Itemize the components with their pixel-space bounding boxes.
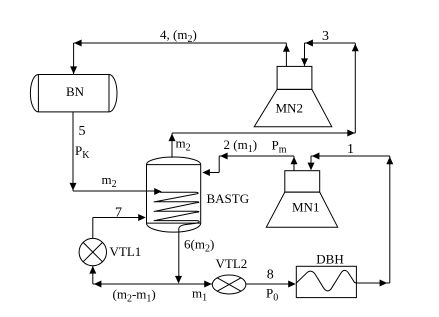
- valve VTL2: [212, 275, 246, 294]
- arrow up, MN1 outlet: [291, 157, 298, 165]
- wire MN2 outlet riser: [285, 43, 287, 66]
- wire VTL1 bottom riser: [92, 266, 94, 284]
- svg-text:Pm: Pm: [272, 138, 287, 156]
- arrow up, right riser top: [386, 157, 393, 165]
- arrow right, y133 corner: [347, 130, 355, 137]
- svg-text:P0: P0: [266, 286, 278, 304]
- svg-text:PK: PK: [75, 143, 90, 161]
- wire line 4 horizontal: [74, 42, 287, 44]
- wire line 2 jog vertical: [218, 156, 220, 173]
- wire right riser: [389, 156, 391, 283]
- wire BASTG m2 riser: [171, 133, 173, 158]
- wire DBH output: [356, 282, 389, 284]
- svg-text:BN: BN: [66, 84, 85, 99]
- wire MN1 outlet riser: [293, 156, 295, 171]
- coil inside BASTG: [154, 192, 199, 228]
- arrow right, line 7 at wall: [138, 214, 146, 221]
- arrow left, bottom line end: [94, 281, 102, 288]
- compressor MN2: [254, 66, 332, 126]
- arrow left, line 3 end: [305, 40, 313, 47]
- arrowheads: [70, 40, 394, 288]
- svg-text:VTL2: VTL2: [216, 256, 248, 271]
- wire line 3 horizontal: [305, 42, 356, 44]
- arrow up, m2 riser top: [169, 134, 176, 142]
- svg-text:6(m2): 6(m2): [184, 237, 214, 255]
- wire line 7 into BASTG: [93, 217, 144, 219]
- wire line 3 riser: [354, 43, 356, 133]
- svg-text:5: 5: [79, 124, 86, 139]
- wire VTL2 to DBH: [246, 283, 295, 285]
- arrow left, into vessel right wall: [202, 169, 210, 176]
- svg-text:8: 8: [267, 268, 274, 283]
- wire MN1 inlet riser: [310, 156, 312, 170]
- wire bottom line left segment: [93, 283, 213, 285]
- svg-text:m1: m1: [192, 286, 207, 304]
- heat exchanger DBH: [296, 266, 356, 297]
- arrow down, into MN2: [301, 58, 308, 66]
- arrow down, into MN1: [308, 163, 315, 171]
- arrow down, m2 corner: [70, 183, 77, 191]
- svg-text:(m2-m1): (m2-m1): [113, 287, 156, 305]
- svg-text:MN2: MN2: [276, 101, 303, 116]
- svg-text:m2: m2: [102, 172, 117, 190]
- wire line 2 into vessel: [204, 172, 220, 174]
- wire BN outlet down: [72, 112, 74, 191]
- arrow right, into VTL2: [204, 281, 212, 288]
- svg-text:1: 1: [347, 142, 354, 157]
- svg-text:3: 3: [322, 29, 329, 44]
- svg-text:DBH: DBH: [316, 252, 343, 267]
- vessel BASTG: [147, 157, 201, 232]
- svg-text:4, (m2): 4, (m2): [160, 27, 197, 45]
- arrow right, into DBH: [288, 281, 296, 288]
- arrow right, DBH output corner: [380, 280, 388, 287]
- arrow right, into coil: [154, 188, 162, 195]
- wire VTL1 top riser: [92, 218, 94, 239]
- wire line 1 horizontal: [311, 155, 390, 157]
- arrow up, MN2 outlet: [283, 44, 290, 52]
- svg-text:BASTG: BASTG: [207, 191, 250, 206]
- valve VTL1: [79, 238, 106, 265]
- compressor MN1: [266, 171, 337, 228]
- wire MN2 inlet riser: [304, 43, 306, 66]
- arrow up, into VTL1: [89, 266, 96, 274]
- arrow down, into BN: [70, 66, 77, 74]
- wire BN inlet riser: [73, 43, 75, 74]
- svg-text:7: 7: [115, 206, 122, 221]
- svg-text:MN1: MN1: [292, 200, 319, 215]
- svg-text:VTL1: VTL1: [110, 244, 142, 259]
- wire line 2 horizontal: [219, 155, 294, 157]
- svg-text:2 (m1): 2 (m1): [224, 137, 258, 155]
- arrow left, line 1 end: [312, 153, 320, 160]
- arrow left, line 2 jog corner: [220, 153, 228, 160]
- wire 6(m2) down line: [178, 228, 180, 283]
- wire y133 horizontal: [172, 132, 355, 134]
- arrow up, line 3 riser top: [352, 44, 359, 52]
- arrow down, 6(m2) end: [175, 276, 182, 284]
- svg-text:m2: m2: [176, 136, 191, 154]
- arrow left, line 4 end: [74, 40, 82, 47]
- tank BN: [30, 75, 117, 112]
- wire m2 feed to BASTG: [73, 190, 160, 192]
